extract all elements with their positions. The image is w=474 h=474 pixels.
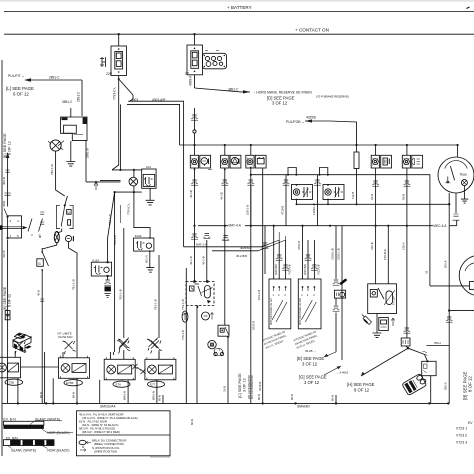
battery rail <box>4 11 474 13</box>
svg-text:7013-L/B: 7013-L/B <box>288 264 292 275</box>
K feed wires <box>194 226 196 281</box>
svg-text:+ CONTACT ON: + CONTACT ON <box>295 28 329 33</box>
wire x225 <box>224 226 226 326</box>
svg-text:8 OF 12: 8 OF 12 <box>8 141 12 155</box>
bus right dots <box>335 402 337 404</box>
svg-text:K13A: K13A <box>135 234 142 238</box>
meter circle <box>202 312 214 320</box>
svg-text:779-1-B: 779-1-B <box>181 330 185 340</box>
splice box <box>401 328 410 346</box>
slanted contact blob <box>341 280 346 284</box>
svg-text:SM/A3N: SM/A3N <box>297 405 310 409</box>
legend example 1 <box>3 417 73 435</box>
branch diagonal from F1 <box>119 79 133 102</box>
RL1 connector <box>283 180 290 185</box>
svg-text:46-1B: 46-1B <box>219 192 223 200</box>
wire below S1 <box>7 240 9 404</box>
fan F3 symbol <box>118 338 130 351</box>
svg-text:PUL/FIT ↔: PUL/FIT ↔ <box>8 74 25 78</box>
svg-text:60-N: 60-N <box>290 394 294 400</box>
feed diagonals <box>258 240 286 251</box>
svg-text:8 OF 12: 8 OF 12 <box>7 294 11 307</box>
svg-text:[E] SEE PAGE: [E] SEE PAGE <box>297 356 324 361</box>
wire x56 <box>56 151 65 196</box>
relay K box <box>186 280 214 308</box>
svg-text:EV: EV <box>468 421 473 425</box>
svg-text:780-1-B: 780-1-B <box>50 164 54 175</box>
wire x336 <box>335 226 337 279</box>
svg-text:BLANC (WHITE): BLANC (WHITE) <box>35 418 60 422</box>
svg-text:NOIR (BLACK): NOIR (BLACK) <box>47 449 69 453</box>
svg-text:K13A: K13A <box>92 258 99 262</box>
svg-text:60-N: 60-N <box>72 392 76 398</box>
svg-text:32: 32 <box>424 270 428 274</box>
extra wire labels <box>2 192 448 340</box>
slanted label under B2 <box>293 329 320 349</box>
temp gauge G1 <box>438 144 474 203</box>
K14 link wire <box>115 191 142 193</box>
brake reserve branch <box>195 88 251 92</box>
svg-text:4025-B/R: 4025-B/R <box>303 264 307 275</box>
mat link wires <box>184 246 262 248</box>
connector block C1 <box>203 51 227 69</box>
svg-text:1: 1 <box>273 293 275 297</box>
fuse F2 body <box>187 45 203 75</box>
svg-text:350-4: 350-4 <box>434 341 441 345</box>
column conn bottom <box>335 298 337 305</box>
relay RL2 box <box>323 184 344 205</box>
bus dots <box>17 402 19 404</box>
warning unit U4 beam <box>370 144 391 284</box>
svg-text:42A1: 42A1 <box>2 200 6 207</box>
page bottom edge strip <box>150 456 170 458</box>
svg-text:4008-A: 4008-A <box>189 75 193 86</box>
svg-text:781-1-B: 781-1-B <box>72 279 76 290</box>
svg-text:46-1-B: 46-1-B <box>201 256 205 265</box>
relay bottom wire <box>296 203 449 205</box>
svg-text:→ HORS MANS. RESERVE DE FREIN: → HORS MANS. RESERVE DE FREIN <box>252 90 312 94</box>
fuse F1 holder symbol <box>100 57 106 67</box>
svg-text:4003: 4003 <box>131 98 138 102</box>
svg-text:MEC-4-A: MEC-4-A <box>433 224 447 228</box>
fan symbol A <box>13 341 26 354</box>
warning unit U2 triangle <box>219 144 241 226</box>
svg-text:8 OF 12: 8 OF 12 <box>468 376 473 392</box>
wire x265 <box>264 226 266 274</box>
wire x133 L-path to K13A <box>134 192 150 238</box>
ground below H1 <box>373 314 382 338</box>
off page arrow L <box>6 74 82 97</box>
contact rail <box>4 33 474 35</box>
svg-text:7793-C-L: 7793-C-L <box>113 86 117 100</box>
node N1 wires <box>361 341 449 376</box>
H1 feeds <box>387 226 389 284</box>
lamp loop rail <box>251 175 430 286</box>
switch S3 <box>37 243 57 404</box>
svg-text:103-1-B: 103-1-B <box>257 290 261 300</box>
fan symbol D <box>149 340 162 353</box>
svg-text:MOTOR PANEL AV DR: MOTOR PANEL AV DR <box>298 298 302 325</box>
svg-text:2101-L/B: 2101-L/B <box>337 248 341 260</box>
twin feed wire a <box>129 101 184 247</box>
svg-text:(98.3-R : WIRE N° 98.3 RED): (98.3-R : WIRE N° 98.3 RED) <box>82 430 120 434</box>
wire x7 with arrow <box>2 152 11 207</box>
svg-text:[G] SEE PAGE: [G] SEE PAGE <box>299 375 327 380</box>
warning unit U5 lights <box>401 144 422 338</box>
svg-text:2: 2 <box>10 219 12 223</box>
svg-text:Teau: Teau <box>460 172 467 176</box>
connector pair on left wire <box>5 311 10 315</box>
fuel gauge G2 <box>459 255 474 296</box>
rail4 labels <box>228 223 245 228</box>
svg-text:V723 3: V723 3 <box>456 440 467 444</box>
lamp L1 <box>54 232 61 243</box>
legend table <box>77 411 171 456</box>
tick symbols <box>104 276 111 298</box>
relay RL1 box <box>292 184 313 205</box>
svg-text:2100-L/B: 2100-L/B <box>331 248 335 260</box>
svg-text:58-B: 58-B <box>401 194 405 200</box>
left page border <box>1 60 3 456</box>
svg-text:A: A <box>82 445 85 449</box>
fan symbol B <box>63 341 76 354</box>
resistor R <box>354 144 359 175</box>
svg-text:783-1-B: 783-1-B <box>154 299 158 310</box>
svg-text:505-A: 505-A <box>444 260 448 268</box>
warning unit U3 battery <box>245 144 266 404</box>
relay E77 <box>145 357 176 387</box>
svg-text:4003-A/R: 4003-A/R <box>152 98 166 102</box>
ground G1 <box>66 162 75 167</box>
wire x186 <box>185 268 187 403</box>
svg-text:3 OF 12: 3 OF 12 <box>272 101 288 106</box>
svg-text:32-B: 32-B <box>223 386 227 392</box>
slow fan note <box>57 332 72 340</box>
wire x252 bottom <box>250 186 252 403</box>
svg-text:SLOW FAN: SLOW FAN <box>58 335 72 339</box>
svg-text:4710-B: 4710-B <box>297 241 301 250</box>
horn unit <box>208 340 224 355</box>
lamp relay RL1 loop <box>288 168 296 175</box>
svg-text:601-N: 601-N <box>144 255 148 263</box>
see page H text <box>336 371 375 393</box>
svg-text:782-1-B: 782-1-B <box>118 289 122 300</box>
svg-text:4025/8-R: 4025/8-R <box>240 246 252 250</box>
svg-text:V723 2: V723 2 <box>456 433 467 437</box>
svg-text:505-A: 505-A <box>444 382 448 390</box>
wire x342 <box>341 226 343 360</box>
svg-text:BLANC (WHITE): BLANC (WHITE) <box>12 449 37 453</box>
svg-text:60-N: 60-N <box>158 395 162 401</box>
PUL/FOB arrow <box>286 116 357 146</box>
fan symbol C <box>117 340 130 353</box>
see page G <box>299 366 341 385</box>
arrow mark <box>391 318 395 326</box>
svg-text:3891-2: 3891-2 <box>62 100 72 104</box>
node wire y170 <box>112 169 142 171</box>
ground bus <box>2 402 448 404</box>
svg-text:F.L 15A: F.L 15A <box>392 296 396 305</box>
heated seat box H1 <box>368 284 397 314</box>
connector cluster CL <box>91 258 111 277</box>
slanted label under B1 <box>262 329 289 349</box>
sender rail <box>198 225 457 227</box>
see page B rotated <box>463 371 473 400</box>
svg-text:(WIRE POSITION: (WIRE POSITION <box>94 450 117 454</box>
wire x159 <box>158 255 160 338</box>
resistor drop <box>356 175 358 205</box>
svg-text:MAT-1-A: MAT-1-A <box>196 243 207 247</box>
B2 feed wires <box>302 226 304 279</box>
svg-text:+ BATTERY: + BATTERY <box>227 5 252 10</box>
connector 3d box <box>13 333 32 353</box>
svg-text:7793-C-L: 7793-C-L <box>127 203 131 215</box>
wire x449 down <box>448 193 450 403</box>
K output <box>196 305 198 403</box>
wire x120 upper <box>120 104 122 169</box>
fuel gauge wire <box>430 285 470 287</box>
wire 780-1-B long <box>114 192 116 352</box>
svg-text:2P: 2P <box>185 72 190 76</box>
wire below F2 <box>194 75 196 88</box>
svg-text:SM/2U/A4: SM/2U/A4 <box>100 404 116 408</box>
svg-text:6: 6 <box>17 234 19 238</box>
svg-text:[C] SEE PAGE: [C] SEE PAGE <box>238 373 242 398</box>
bottom drops <box>7 402 9 404</box>
svg-text:4025-B/R: 4025-B/R <box>274 264 278 275</box>
svg-text:1: 1 <box>10 234 12 238</box>
svg-text:60-N: 60-N <box>190 419 194 425</box>
wire contact to F2 <box>194 34 196 45</box>
connector row <box>191 234 198 239</box>
svg-text:150-A: 150-A <box>401 242 405 250</box>
svg-text:45-2-B/R: 45-2-B/R <box>236 254 247 258</box>
blower box B1 <box>269 279 291 329</box>
svg-text:7013-L/B: 7013-L/B <box>316 264 320 275</box>
svg-text:2891-C: 2891-C <box>49 76 60 80</box>
svg-text:MAT-4-A: MAT-4-A <box>229 224 242 228</box>
svg-text:3 OF 12: 3 OF 12 <box>304 380 320 385</box>
svg-text:EX. B-N: EX. B-N <box>3 417 16 421</box>
svg-text:6041-N: 6041-N <box>151 391 155 400</box>
svg-text:NOIR (BLACK): NOIR (BLACK) <box>47 431 69 435</box>
svg-text:6 OF 12: 6 OF 12 <box>13 92 29 97</box>
twin feed wire b <box>127 104 180 145</box>
coupling X-X <box>133 364 146 374</box>
svg-text:3 OF 12: 3 OF 12 <box>302 362 318 367</box>
small meter box <box>335 290 346 298</box>
column conn top <box>333 280 340 285</box>
switch S2 <box>40 196 73 232</box>
cassette box <box>379 318 389 331</box>
lamp K14 circle <box>129 170 138 192</box>
lamp oval <box>182 311 188 322</box>
svg-text:2981-B: 2981-B <box>86 148 90 158</box>
wire below F1 <box>118 76 120 166</box>
multifunction switch S1 <box>0 200 43 239</box>
wire contact to F1 <box>118 34 120 46</box>
see page E <box>297 349 336 367</box>
svg-text:V723 1: V723 1 <box>456 427 467 431</box>
svg-text:4025/8: 4025/8 <box>306 116 316 120</box>
fuel sender wire <box>449 310 474 312</box>
svg-text:4: 4 <box>307 293 309 297</box>
svg-text:326-B: 326-B <box>370 242 374 250</box>
svg-text:PUL/FOB ↔: PUL/FOB ↔ <box>286 120 305 124</box>
left rotated see page C <box>238 373 254 399</box>
svg-text:[L] SEE PAGE: [L] SEE PAGE <box>6 86 34 91</box>
diag to connector cluster <box>108 192 115 262</box>
wire into ignition <box>81 80 83 116</box>
fuse F1 body <box>111 46 127 76</box>
svg-text:49-1B: 49-1B <box>189 190 193 198</box>
lighter symbol <box>362 315 372 325</box>
svg-text:1: 1 <box>301 293 303 297</box>
pump bracket <box>422 361 436 375</box>
svg-text:60-N: 60-N <box>331 395 335 401</box>
instrument feed rail <box>180 144 458 146</box>
svg-text:E77: E77 <box>150 383 156 387</box>
svg-text:K14: K14 <box>146 165 151 169</box>
svg-text:4: 4 <box>17 219 19 223</box>
battery rail end mark <box>467 7 470 9</box>
svg-text:6041-N: 6041-N <box>123 391 127 400</box>
lamp relay RL2 loop <box>320 168 328 175</box>
svg-text:[K] SEE PAGE: [K] SEE PAGE <box>3 133 7 158</box>
double arrow node <box>86 180 121 190</box>
wire x123 lower <box>123 228 125 338</box>
svg-text:[H] SEE PAGE: [H] SEE PAGE <box>347 382 375 387</box>
steering lock symbol <box>48 140 63 151</box>
svg-text:60-N: 60-N <box>257 394 261 400</box>
svg-text:62-N: 62-N <box>370 194 374 200</box>
relay E76 <box>104 357 135 387</box>
svg-text:E76: E76 <box>116 383 122 387</box>
svg-text:(70 P BRAKE RESERVE): (70 P BRAKE RESERVE) <box>316 95 349 99</box>
relay link wire <box>21 366 59 368</box>
ignition switch block <box>58 108 90 182</box>
legend example 2 <box>3 437 69 453</box>
relay E75A partial <box>0 357 23 385</box>
module K13A <box>134 234 154 252</box>
svg-text:49-1-B: 49-1-B <box>189 256 193 265</box>
gauge G1 sender wire <box>453 193 460 226</box>
svg-text:6215-B: 6215-B <box>252 321 256 330</box>
svg-text:MOTOR PANEL AV GV: MOTOR PANEL AV GV <box>269 298 273 325</box>
svg-text:L75B: L75B <box>7 381 14 385</box>
svg-text:112-B: 112-B <box>351 192 355 199</box>
RL2 connector <box>314 180 321 185</box>
svg-text:3 OF 12: 3 OF 12 <box>243 378 247 392</box>
svg-text:60-N: 60-N <box>39 392 43 398</box>
B1 feed wires <box>273 226 275 279</box>
svg-text:780-1-B: 780-1-B <box>113 235 117 245</box>
warning unit U1 oil <box>189 144 212 226</box>
wire x66 drop <box>69 242 78 352</box>
page top edge strip <box>0 0 474 2</box>
svg-text:779-1-B: 779-1-B <box>181 299 185 310</box>
relay E75B <box>59 356 90 386</box>
ground below K13A <box>144 251 154 272</box>
svg-text:45-2B →: 45-2B → <box>305 349 316 353</box>
svg-text:4: 4 <box>278 293 280 297</box>
rail4 dots <box>193 225 195 227</box>
washer pump M2 <box>402 373 428 396</box>
V labels <box>456 421 473 444</box>
instrument symbol group <box>65 235 73 241</box>
svg-text:2891-2: 2891-2 <box>77 92 81 102</box>
svg-text:2: 2 <box>313 293 315 297</box>
svg-text:3891-C: 3891-C <box>228 88 239 92</box>
svg-text:E75B: E75B <box>66 381 73 385</box>
svg-text:6215-B: 6215-B <box>258 382 262 391</box>
svg-text:100-1-B: 100-1-B <box>245 205 249 215</box>
svg-text:402-B: 402-B <box>2 177 6 185</box>
svg-text:G: G <box>38 262 41 266</box>
svg-text:→ 5-4062: → 5-4062 <box>336 371 349 375</box>
svg-text:8 OF 12: 8 OF 12 <box>354 388 370 393</box>
svg-text:412-B: 412-B <box>2 250 6 258</box>
svg-text:22P: 22P <box>106 72 113 76</box>
y204 wire end dot <box>448 203 450 205</box>
svg-text:1380-L/B: 1380-L/B <box>312 203 316 215</box>
svg-text:42-B: 42-B <box>37 290 41 296</box>
svg-text:2: 2 <box>284 293 286 297</box>
ground below K14 <box>146 188 155 205</box>
fan F4 symbol <box>147 338 159 351</box>
svg-text:4710-B: 4710-B <box>281 206 285 215</box>
module K14 <box>142 165 156 188</box>
svg-text:150-B-R: 150-B-R <box>383 249 387 260</box>
blower box B2 <box>298 279 321 329</box>
switch box S9 <box>218 325 229 336</box>
